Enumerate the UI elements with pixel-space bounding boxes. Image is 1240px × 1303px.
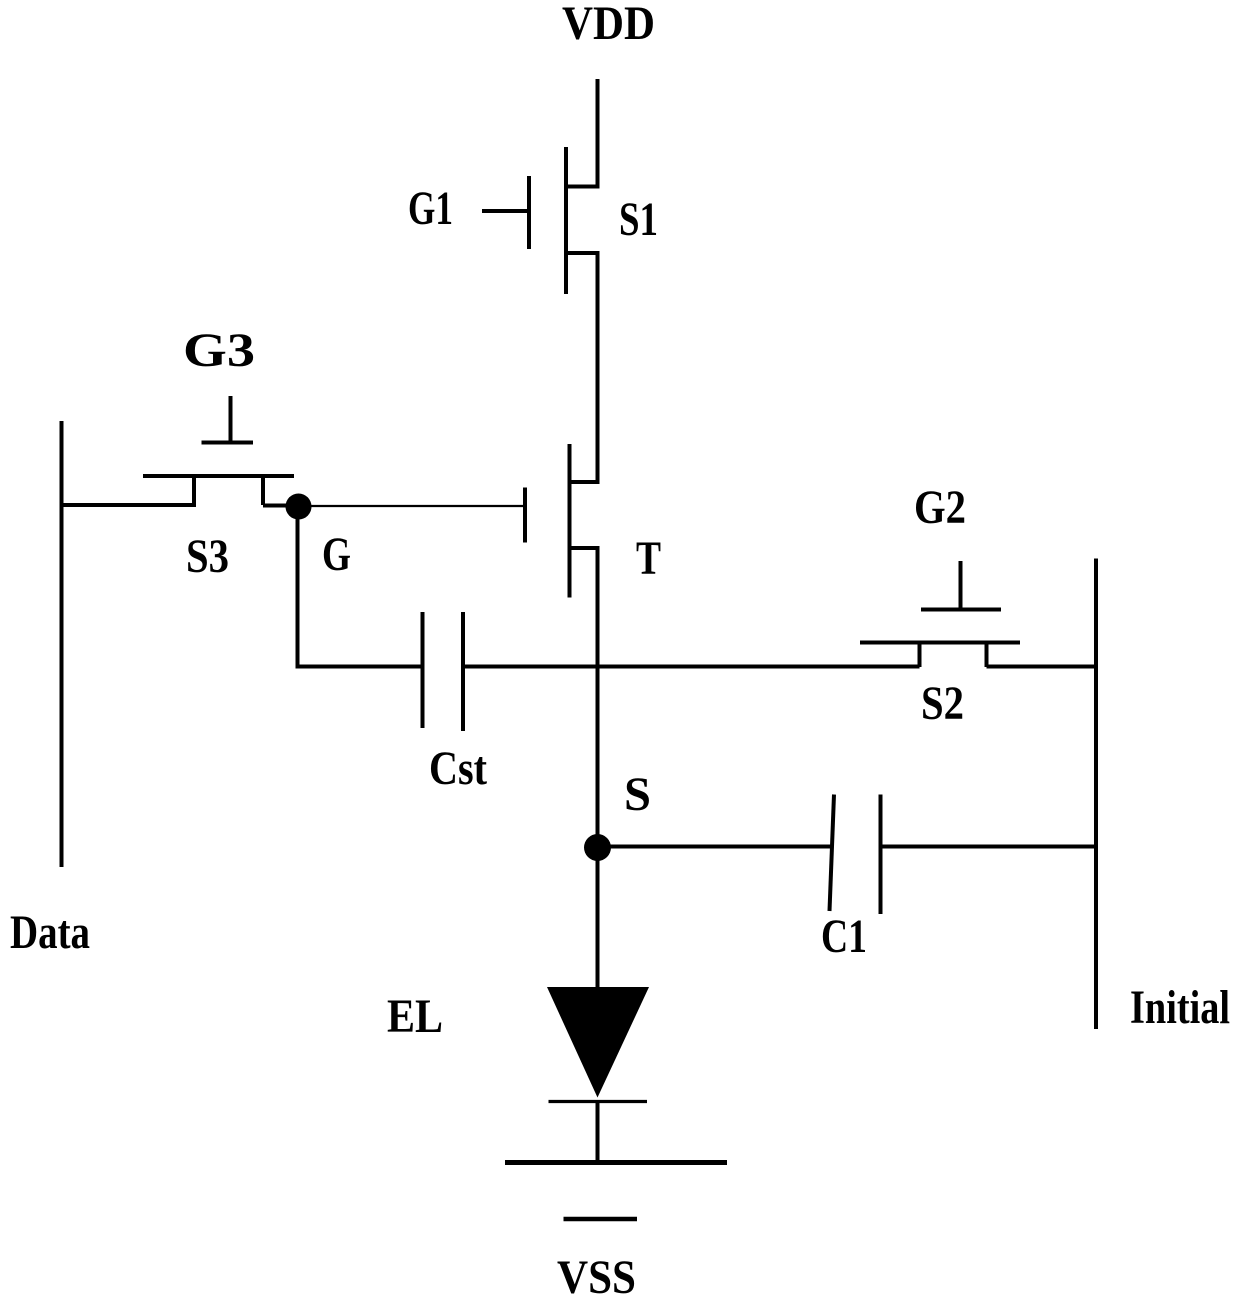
wire S2 source to Initial line bbox=[987, 665, 1097, 669]
Initial vertical bus line bbox=[1094, 559, 1098, 1030]
capacitor C1 bbox=[830, 795, 881, 915]
svg-text:S2: S2 bbox=[921, 677, 964, 730]
svg-text:G1: G1 bbox=[408, 182, 453, 235]
wire EL cathode to VSS bbox=[596, 1102, 600, 1161]
svg-text:C1: C1 bbox=[821, 910, 867, 963]
svg-text:VSS: VSS bbox=[557, 1251, 636, 1303]
wire node G to T gate bbox=[298, 505, 523, 507]
svg-text:G: G bbox=[322, 528, 351, 581]
svg-text:Initial: Initial bbox=[1130, 981, 1230, 1034]
wire C1 right plate to Initial line bbox=[881, 845, 1097, 849]
svg-text:Data: Data bbox=[10, 906, 90, 959]
svg-text:S1: S1 bbox=[619, 193, 658, 246]
svg-text:S3: S3 bbox=[186, 530, 229, 583]
wire node S to C1 left plate bbox=[598, 845, 832, 849]
wire node S to EL anode bbox=[596, 848, 600, 989]
svg-text:G3: G3 bbox=[183, 324, 255, 377]
svg-text:Cst: Cst bbox=[429, 742, 487, 795]
diode EL anode triangle bbox=[547, 987, 649, 1098]
transistor T bbox=[525, 444, 600, 598]
svg-text:EL: EL bbox=[387, 990, 443, 1043]
transistor S2 bbox=[860, 561, 1020, 667]
node G junction dot bbox=[286, 494, 312, 520]
wire S3 source to node G bbox=[263, 504, 298, 508]
svg-text:VDD: VDD bbox=[562, 0, 655, 50]
node S junction dot bbox=[584, 834, 611, 861]
ground VSS symbol long bar bbox=[505, 1160, 727, 1165]
transistor S3 bbox=[143, 396, 294, 505]
wire S1 source to T drain bbox=[596, 253, 600, 482]
wire node G down to Cst bbox=[296, 507, 300, 669]
capacitor Cst bbox=[423, 612, 464, 731]
wire Data line to S3 drain bbox=[60, 503, 197, 507]
wire Cst right plate to S2 drain bbox=[463, 665, 920, 669]
wire node G to Cst left plate bbox=[296, 665, 423, 669]
diode EL cathode bar bbox=[549, 1100, 648, 1103]
svg-text:S: S bbox=[624, 768, 651, 821]
wire T source to node S bbox=[596, 548, 600, 848]
Data vertical bus line bbox=[60, 421, 64, 867]
svg-text:G2: G2 bbox=[914, 481, 966, 534]
svg-text:T: T bbox=[636, 532, 661, 585]
transistor S1 bbox=[482, 147, 600, 294]
wire VDD to S1 drain bbox=[596, 79, 600, 187]
ground VSS symbol short bar bbox=[564, 1217, 638, 1222]
